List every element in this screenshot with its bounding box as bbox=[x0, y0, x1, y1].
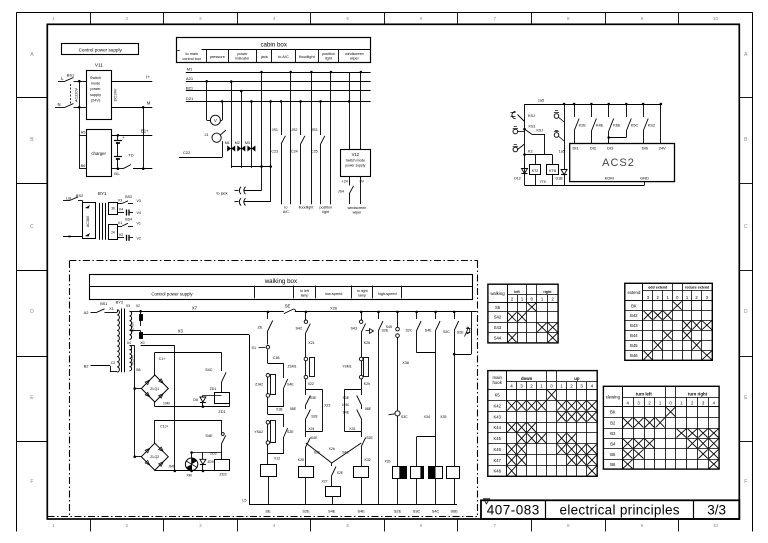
svg-text:B42: B42 bbox=[630, 313, 638, 318]
svg-text:K32: K32 bbox=[365, 458, 371, 462]
svg-text:ZLQ1: ZLQ1 bbox=[150, 387, 159, 391]
svg-text:TD: TD bbox=[128, 153, 133, 158]
svg-text:position: position bbox=[319, 206, 332, 210]
svg-text:C: C bbox=[30, 224, 34, 230]
svg-text:X4: X4 bbox=[127, 341, 131, 345]
svg-text:S2E: S2E bbox=[366, 436, 373, 440]
svg-text:KT2: KT2 bbox=[532, 169, 538, 173]
svg-text:K26: K26 bbox=[364, 341, 370, 345]
svg-text:S3C: S3C bbox=[413, 509, 421, 514]
svg-text:BS3: BS3 bbox=[125, 195, 132, 199]
svg-text:X34: X34 bbox=[424, 415, 430, 419]
svg-text:KSJ: KSJ bbox=[537, 129, 544, 133]
svg-text:B: B bbox=[68, 234, 71, 239]
svg-text:S2E: S2E bbox=[314, 451, 321, 455]
svg-text:up: up bbox=[574, 376, 580, 381]
svg-text:K6E: K6E bbox=[613, 123, 621, 128]
svg-text:X7: X7 bbox=[192, 306, 198, 311]
svg-text:S2E: S2E bbox=[394, 509, 402, 514]
svg-text:C25: C25 bbox=[311, 149, 318, 153]
svg-text:windscreen: windscreen bbox=[345, 52, 364, 56]
svg-text:9: 9 bbox=[641, 16, 644, 21]
svg-text:A5: A5 bbox=[81, 131, 86, 135]
svg-text:KOM: KOM bbox=[605, 175, 614, 180]
svg-text:X12: X12 bbox=[274, 457, 280, 461]
svg-text:S45: S45 bbox=[386, 325, 392, 329]
svg-text:V3: V3 bbox=[118, 199, 122, 203]
svg-text:to A/C: to A/C bbox=[278, 54, 289, 59]
svg-text:BK: BK bbox=[610, 410, 616, 415]
svg-text:F: F bbox=[744, 479, 747, 485]
svg-text:X22: X22 bbox=[308, 382, 314, 386]
svg-text:light: light bbox=[322, 210, 329, 214]
svg-text:ZJA2: ZJA2 bbox=[255, 383, 263, 387]
svg-text:charger: charger bbox=[91, 151, 106, 156]
svg-text:BS1: BS1 bbox=[100, 302, 107, 306]
svg-text:supply: supply bbox=[90, 93, 101, 97]
svg-text:S3C: S3C bbox=[401, 415, 408, 419]
svg-text:K43: K43 bbox=[493, 414, 501, 419]
svg-text:4: 4 bbox=[273, 523, 276, 528]
svg-text:K44: K44 bbox=[493, 425, 501, 430]
svg-text:JS2: JS2 bbox=[291, 128, 297, 132]
svg-text:K2E: K2E bbox=[579, 123, 587, 128]
svg-text:S43: S43 bbox=[350, 327, 357, 331]
svg-text:3: 3 bbox=[199, 523, 202, 528]
svg-text:X2: X2 bbox=[136, 304, 140, 308]
svg-text:S4E: S4E bbox=[311, 436, 318, 440]
svg-text:S4E: S4E bbox=[287, 383, 294, 387]
svg-text:5: 5 bbox=[346, 16, 349, 21]
svg-text:wiper: wiper bbox=[353, 211, 363, 215]
svg-text:S4E: S4E bbox=[425, 329, 432, 333]
svg-text:S1: S1 bbox=[251, 346, 256, 350]
svg-text:M3: M3 bbox=[245, 141, 250, 145]
svg-text:V4: V4 bbox=[119, 208, 123, 212]
svg-text:to: to bbox=[284, 206, 287, 210]
svg-text:X2b: X2b bbox=[329, 447, 335, 451]
svg-text:lamp: lamp bbox=[358, 293, 366, 297]
svg-text:S4E: S4E bbox=[328, 509, 336, 514]
svg-text:odd extend: odd extend bbox=[648, 286, 667, 290]
svg-text:BY1: BY1 bbox=[98, 191, 107, 196]
svg-text:M1: M1 bbox=[225, 141, 230, 145]
svg-text:7: 7 bbox=[494, 523, 497, 528]
svg-text:S2E: S2E bbox=[337, 471, 344, 475]
svg-text:turn left: turn left bbox=[636, 391, 653, 396]
svg-text:S3C: S3C bbox=[443, 330, 450, 334]
svg-text:K5C: K5C bbox=[631, 123, 639, 128]
svg-text:DI3: DI3 bbox=[607, 146, 614, 151]
svg-text:X38: X38 bbox=[402, 361, 409, 365]
svg-text:hook: hook bbox=[493, 380, 503, 385]
svg-text:to left: to left bbox=[300, 289, 309, 293]
svg-text:SE: SE bbox=[285, 304, 291, 309]
svg-text:2: 2 bbox=[126, 523, 129, 528]
svg-text:JS3: JS3 bbox=[311, 128, 317, 132]
svg-text:D: D bbox=[744, 309, 748, 315]
svg-text:V3: V3 bbox=[137, 199, 141, 203]
svg-text:K29: K29 bbox=[364, 382, 370, 386]
svg-text:V2: V2 bbox=[137, 236, 141, 240]
svg-text:X1B: X1B bbox=[276, 408, 283, 412]
svg-text:A2: A2 bbox=[84, 310, 90, 315]
svg-text:JS1: JS1 bbox=[272, 128, 278, 132]
svg-text:right: right bbox=[543, 290, 552, 294]
svg-text:X3: X3 bbox=[178, 329, 184, 334]
svg-text:K46: K46 bbox=[493, 447, 501, 452]
svg-text:DI2: DI2 bbox=[590, 146, 597, 151]
svg-text:S4C: S4C bbox=[205, 368, 213, 372]
svg-text:X2b: X2b bbox=[384, 460, 390, 464]
svg-text:X24: X24 bbox=[308, 427, 314, 431]
svg-text:S42: S42 bbox=[494, 315, 502, 320]
svg-text:cabin box: cabin box bbox=[260, 41, 287, 48]
svg-text:KTB: KTB bbox=[549, 169, 556, 173]
svg-text:B21: B21 bbox=[186, 86, 194, 91]
svg-text:KSJ: KSJ bbox=[528, 114, 535, 118]
svg-text:Switch: Switch bbox=[90, 76, 101, 80]
svg-text:DI6: DI6 bbox=[642, 146, 649, 151]
svg-text:B4: B4 bbox=[610, 441, 616, 446]
svg-text:K2: K2 bbox=[528, 150, 533, 154]
svg-text:JS4: JS4 bbox=[338, 190, 344, 194]
svg-text:C1J+: C1J+ bbox=[160, 425, 169, 429]
svg-text:A/C: A/C bbox=[283, 210, 289, 214]
svg-text:SE: SE bbox=[265, 509, 271, 514]
svg-text:1030: 1030 bbox=[342, 403, 349, 407]
svg-text:K48: K48 bbox=[493, 469, 501, 474]
svg-text:+: + bbox=[122, 135, 125, 140]
svg-text:B5: B5 bbox=[610, 452, 616, 457]
svg-text:58E: 58E bbox=[365, 407, 372, 411]
svg-text:ACS2: ACS2 bbox=[602, 157, 635, 169]
svg-text:S4C: S4C bbox=[432, 509, 440, 514]
svg-text:B1-: B1- bbox=[114, 172, 121, 176]
svg-text:S3E: S3E bbox=[343, 396, 350, 400]
svg-text:KS2: KS2 bbox=[648, 123, 655, 128]
svg-text:D12: D12 bbox=[514, 177, 521, 181]
svg-text:K5: K5 bbox=[495, 393, 501, 398]
svg-text:5: 5 bbox=[346, 523, 349, 528]
svg-text:XM: XM bbox=[186, 473, 191, 477]
svg-text:power: power bbox=[237, 52, 248, 56]
svg-text:BY2: BY2 bbox=[116, 299, 124, 304]
svg-text:mode: mode bbox=[91, 82, 101, 86]
svg-text:AC380: AC380 bbox=[86, 216, 90, 227]
svg-text:ZSM1: ZSM1 bbox=[287, 365, 296, 369]
svg-text:N: N bbox=[57, 102, 60, 107]
svg-text:K4E: K4E bbox=[596, 123, 604, 128]
svg-text:C1+: C1+ bbox=[159, 357, 166, 361]
svg-text:L5: L5 bbox=[242, 499, 246, 503]
svg-text:4: 4 bbox=[273, 16, 276, 21]
svg-text:S4E: S4E bbox=[358, 509, 366, 514]
svg-text:to right: to right bbox=[357, 289, 368, 293]
svg-text:B3: B3 bbox=[610, 431, 616, 436]
svg-text:V2: V2 bbox=[119, 233, 123, 237]
svg-text:B6: B6 bbox=[610, 462, 616, 467]
svg-text:7: 7 bbox=[494, 16, 497, 21]
svg-text:V: V bbox=[214, 118, 217, 123]
svg-text:ZE: ZE bbox=[258, 325, 263, 330]
svg-text:extend: extend bbox=[627, 290, 641, 295]
svg-text:ZD9: ZD9 bbox=[208, 460, 214, 464]
svg-text:X35: X35 bbox=[440, 415, 446, 419]
svg-text:DI1: DI1 bbox=[572, 146, 579, 151]
svg-text:A21: A21 bbox=[186, 76, 194, 81]
svg-text:B44: B44 bbox=[630, 333, 638, 338]
svg-text:X27: X27 bbox=[321, 479, 327, 483]
svg-text:K47: K47 bbox=[493, 458, 501, 463]
svg-text:position: position bbox=[322, 52, 335, 56]
svg-text:1: 1 bbox=[52, 16, 55, 21]
svg-text:S2E: S2E bbox=[382, 329, 389, 333]
svg-text:B6: B6 bbox=[136, 368, 140, 372]
svg-text:B45: B45 bbox=[630, 343, 638, 348]
svg-text:M2: M2 bbox=[235, 141, 240, 145]
svg-text:walking: walking bbox=[490, 291, 505, 296]
svg-text:I+: I+ bbox=[146, 75, 150, 80]
svg-text:S2C: S2C bbox=[406, 329, 413, 333]
svg-text:to main: to main bbox=[185, 52, 197, 56]
svg-text:floodlight: floodlight bbox=[299, 54, 315, 59]
svg-text:ZD1: ZD1 bbox=[218, 410, 225, 414]
svg-text:Switch mode: Switch mode bbox=[346, 159, 366, 163]
svg-text:BK: BK bbox=[631, 303, 637, 308]
svg-text:S42: S42 bbox=[295, 327, 302, 331]
svg-text:10: 10 bbox=[713, 16, 719, 21]
svg-text:8: 8 bbox=[567, 523, 570, 528]
svg-text:YSM1: YSM1 bbox=[342, 365, 351, 369]
svg-text:S5: S5 bbox=[495, 305, 501, 310]
svg-text:S4E: S4E bbox=[205, 434, 213, 438]
svg-text:M: M bbox=[147, 100, 151, 105]
svg-text:X23: X23 bbox=[324, 404, 330, 408]
svg-text:6: 6 bbox=[420, 523, 423, 528]
svg-text:left: left bbox=[514, 290, 520, 294]
svg-text:V1: V1 bbox=[137, 222, 141, 226]
svg-text:3/3: 3/3 bbox=[707, 503, 726, 518]
svg-text:S2E: S2E bbox=[287, 430, 294, 434]
svg-text:C22: C22 bbox=[183, 150, 191, 155]
svg-text:S3E: S3E bbox=[310, 396, 317, 400]
svg-text:power supply: power supply bbox=[345, 164, 365, 168]
svg-text:C: C bbox=[744, 224, 748, 230]
svg-text:AC24V: AC24V bbox=[131, 354, 135, 365]
svg-text:slewing: slewing bbox=[606, 394, 621, 399]
svg-text:407-083: 407-083 bbox=[487, 503, 540, 518]
svg-text:D21: D21 bbox=[186, 96, 194, 101]
svg-text:power: power bbox=[90, 87, 101, 91]
svg-text:YSA2: YSA2 bbox=[254, 430, 263, 434]
svg-text:B2: B2 bbox=[84, 363, 90, 368]
svg-text:fT9: fT9 bbox=[540, 180, 545, 184]
svg-text:walking box: walking box bbox=[264, 278, 298, 285]
svg-text:down: down bbox=[521, 376, 533, 381]
svg-text:JM1: JM1 bbox=[168, 465, 175, 469]
svg-text:+24: +24 bbox=[342, 180, 348, 184]
svg-text:ZD1: ZD1 bbox=[210, 387, 217, 391]
svg-text:X3: X3 bbox=[126, 304, 130, 308]
svg-text:24V: 24V bbox=[659, 146, 666, 151]
svg-text:C2: C2 bbox=[111, 361, 115, 365]
svg-text:3: 3 bbox=[199, 16, 202, 21]
svg-text:KS1: KS1 bbox=[529, 125, 536, 129]
svg-text:X21: X21 bbox=[308, 341, 314, 345]
svg-text:K42: K42 bbox=[493, 404, 501, 409]
svg-text:high-speed: high-speed bbox=[378, 292, 397, 296]
svg-text:D: D bbox=[30, 309, 34, 315]
svg-text:B46: B46 bbox=[630, 353, 638, 358]
svg-text:D6: D6 bbox=[193, 398, 198, 402]
svg-text:Control power supply: Control power supply bbox=[151, 291, 193, 296]
svg-text:58E: 58E bbox=[290, 407, 297, 411]
svg-text:wiper: wiper bbox=[350, 56, 360, 60]
svg-text:low-speed: low-speed bbox=[325, 292, 342, 296]
svg-text:S4E: S4E bbox=[343, 411, 350, 415]
svg-text:X26: X26 bbox=[330, 306, 338, 311]
svg-text:1a5: 1a5 bbox=[538, 99, 544, 103]
svg-text:pressure: pressure bbox=[210, 54, 225, 59]
svg-text:jack: jack bbox=[260, 54, 268, 59]
svg-text:C1B: C1B bbox=[273, 356, 280, 360]
svg-text:light: light bbox=[325, 56, 332, 60]
svg-text:lamp: lamp bbox=[301, 293, 309, 297]
svg-text:K31: K31 bbox=[349, 427, 355, 431]
svg-text:S43: S43 bbox=[494, 325, 502, 330]
svg-text:X1: X1 bbox=[109, 307, 113, 311]
svg-text:windscreen: windscreen bbox=[348, 206, 367, 210]
svg-text:K25: K25 bbox=[298, 458, 304, 462]
svg-text:B43: B43 bbox=[630, 323, 638, 328]
svg-text:6: 6 bbox=[420, 16, 423, 21]
svg-text:2: 2 bbox=[126, 16, 129, 21]
svg-text:B2: B2 bbox=[610, 420, 616, 425]
svg-text:C24: C24 bbox=[291, 149, 298, 153]
svg-text:Control power supply: Control power supply bbox=[79, 48, 123, 53]
svg-text:B1+: B1+ bbox=[141, 129, 149, 134]
svg-text:24: 24 bbox=[111, 231, 115, 235]
svg-text:turn right: turn right bbox=[688, 391, 708, 396]
svg-text:S2E: S2E bbox=[457, 331, 464, 335]
svg-text:8: 8 bbox=[567, 16, 570, 21]
svg-text:reduce extend: reduce extend bbox=[685, 286, 709, 290]
svg-text:K45: K45 bbox=[493, 436, 501, 441]
svg-text:9: 9 bbox=[641, 523, 644, 528]
svg-text:ZLQ2: ZLQ2 bbox=[150, 455, 159, 459]
svg-text:to jack: to jack bbox=[217, 192, 228, 196]
svg-text:control box: control box bbox=[182, 57, 201, 61]
svg-text:1a5: 1a5 bbox=[559, 150, 565, 154]
svg-text:10: 10 bbox=[713, 523, 719, 528]
svg-text:S2E: S2E bbox=[311, 415, 318, 419]
svg-text:F: F bbox=[30, 479, 33, 485]
svg-text:GND: GND bbox=[640, 176, 649, 181]
svg-text:V1: V1 bbox=[118, 221, 122, 225]
svg-text:V11: V11 bbox=[95, 63, 104, 69]
svg-text:10M: 10M bbox=[163, 402, 170, 406]
svg-text:BS1: BS1 bbox=[67, 73, 75, 78]
svg-text:S44: S44 bbox=[494, 336, 502, 341]
svg-text:floodlight: floodlight bbox=[299, 206, 314, 210]
svg-text:electrical principles: electrical principles bbox=[560, 503, 680, 518]
svg-text:M1: M1 bbox=[187, 67, 193, 72]
svg-text:BS4: BS4 bbox=[125, 218, 132, 222]
svg-text:V4: V4 bbox=[137, 211, 141, 215]
svg-text:indicator: indicator bbox=[235, 56, 250, 60]
svg-text:V12: V12 bbox=[352, 152, 360, 157]
svg-text:S2E: S2E bbox=[302, 509, 310, 514]
svg-text:(24V): (24V) bbox=[91, 98, 101, 102]
svg-text:X0: X0 bbox=[140, 341, 144, 345]
svg-text:D1B: D1B bbox=[556, 177, 564, 181]
svg-text:AC220V: AC220V bbox=[75, 87, 79, 102]
svg-text:DC24V: DC24V bbox=[113, 88, 118, 101]
svg-text:36: 36 bbox=[111, 207, 115, 211]
svg-text:1: 1 bbox=[52, 523, 55, 528]
svg-text:S4C: S4C bbox=[342, 451, 349, 455]
svg-text:B6: B6 bbox=[81, 164, 86, 168]
svg-text:S6E: S6E bbox=[451, 509, 459, 514]
svg-text:C23: C23 bbox=[271, 149, 278, 153]
svg-text:ZD2: ZD2 bbox=[219, 473, 226, 477]
